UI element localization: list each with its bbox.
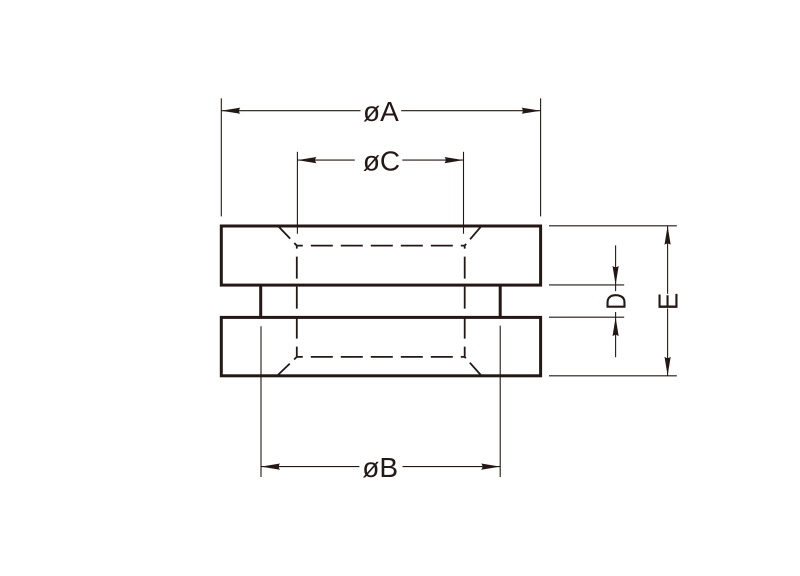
arrow B left: [261, 464, 280, 470]
hidden bore right edge: [464, 246, 466, 357]
groove right edge: [499, 285, 502, 317]
arrow E down: [665, 357, 671, 376]
groove left edge: [259, 285, 262, 317]
dim A line left segment: [221, 110, 360, 112]
dim A extension line right: [540, 98, 542, 216]
svg-text:øC: øC: [363, 145, 400, 176]
hidden chamfer bottom-left: [278, 357, 297, 376]
dim E line lower segment: [667, 309, 669, 376]
dim A line right segment: [401, 110, 540, 112]
upper flange outline: [221, 226, 540, 285]
dim D leader lower: [615, 312, 617, 357]
dim C line right segment: [402, 159, 463, 161]
dim D extension line top: [549, 284, 624, 286]
dim D extension line bottom: [549, 316, 624, 318]
svg-text:E: E: [653, 293, 684, 310]
dim D leader upper: [615, 245, 617, 291]
dim B extension line right: [499, 326, 501, 477]
hidden chamfer top-right: [465, 226, 481, 245]
arrow C right: [445, 157, 464, 163]
dim C line left segment: [297, 159, 354, 161]
hidden bore top edge: [297, 245, 465, 247]
arrow B right: [481, 464, 500, 470]
arrow E up: [665, 226, 671, 245]
svg-text:øA: øA: [363, 96, 399, 127]
dim B extension line left: [260, 326, 262, 477]
dim B line right segment: [403, 466, 501, 468]
dim E extension line top: [549, 225, 677, 227]
dim A extension line left: [220, 98, 222, 216]
lower flange outline: [221, 317, 540, 375]
svg-text:øB: øB: [362, 452, 398, 483]
arrow A left: [221, 108, 240, 114]
dim C extension line right: [463, 152, 465, 234]
arrow A right: [522, 108, 541, 114]
arrow D down: [613, 266, 619, 285]
dim C extension line left: [296, 152, 298, 234]
svg-text:D: D: [602, 293, 633, 310]
hidden chamfer bottom-right: [465, 357, 481, 376]
hidden chamfer top-left: [278, 226, 296, 245]
dim E extension line bottom: [549, 375, 677, 377]
hidden bore left edge: [296, 246, 298, 357]
hidden bore bottom edge: [297, 356, 465, 358]
dim E line upper segment: [667, 226, 669, 294]
arrow C left: [297, 157, 316, 163]
dim B line left segment: [261, 466, 359, 468]
arrow D up: [613, 317, 619, 336]
